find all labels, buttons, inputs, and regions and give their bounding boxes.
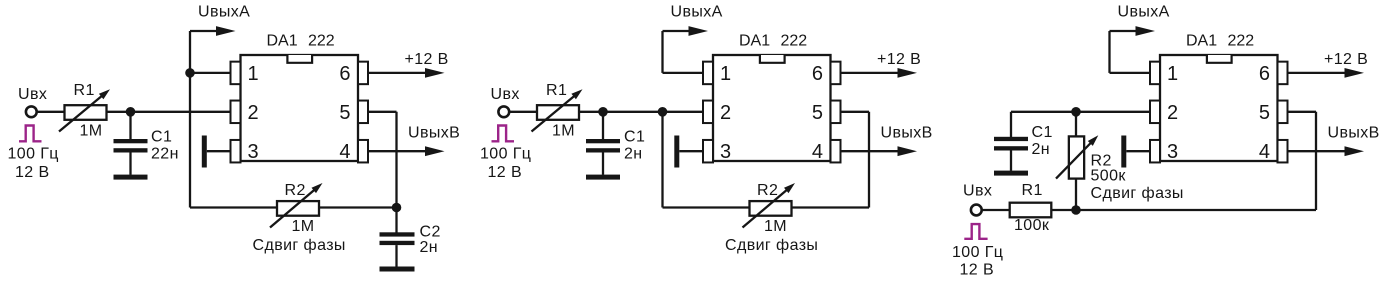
- svg-text:Сдвиг фазы: Сдвиг фазы: [1091, 185, 1184, 202]
- resistor R2 arrow (circuit 1): [270, 189, 315, 227]
- capacitor C1 lead (circuit 3): [1010, 112, 1012, 138]
- resistor R2 body (circuit 2): [750, 201, 792, 216]
- input terminal circle (circuit 3): [971, 205, 982, 216]
- svg-text:6: 6: [1259, 63, 1270, 85]
- svg-text:2: 2: [720, 102, 731, 124]
- pin 4 box (circuit 2): [831, 140, 841, 163]
- svg-text:C2: C2: [420, 224, 441, 241]
- svg-text:R2: R2: [757, 182, 778, 199]
- svg-text:Uвх: Uвх: [18, 86, 47, 103]
- junction node R1/R2 (circuit 3): [1071, 205, 1081, 215]
- pulse source symbol (circuit 3): [964, 224, 987, 239]
- svg-text:12 В: 12 В: [960, 262, 995, 279]
- wire ground to pin 3 (circuit 1): [207, 150, 231, 152]
- wire UвыхA vertical to pin 1 (circuit 2): [661, 31, 663, 73]
- ground bar at pin 3 (circuit 2): [674, 136, 679, 168]
- svg-text:1: 1: [720, 63, 731, 85]
- pin 3 box (circuit 3): [1150, 140, 1160, 163]
- input terminal circle (circuit 2): [498, 106, 509, 117]
- svg-text:Сдвиг фазы: Сдвиг фазы: [725, 237, 818, 254]
- pin 2 box (circuit 1): [231, 101, 241, 124]
- svg-text:100 Гц: 100 Гц: [8, 146, 59, 163]
- svg-text:UвыхA: UвыхA: [671, 4, 723, 21]
- svg-text:222: 222: [308, 33, 335, 50]
- svg-text:1M: 1M: [764, 218, 787, 235]
- wire terminal to R1 (circuit 2): [509, 111, 537, 113]
- wire terminal to R1 (circuit 3): [982, 209, 1010, 211]
- output UвыхA arrow (circuit 3): [1110, 30, 1138, 32]
- pin 5 box (circuit 2): [831, 101, 841, 124]
- resistor R1 arrow (circuit 2): [532, 95, 576, 131]
- svg-text:DA1: DA1: [267, 33, 298, 50]
- output UвыхA arrow (circuit 2): [663, 30, 691, 32]
- svg-text:2н: 2н: [1032, 141, 1051, 158]
- svg-text:+12 В: +12 В: [1324, 51, 1368, 68]
- junction node R2/C2/pin5 (circuit 1): [392, 203, 402, 213]
- pin 1 box (circuit 1): [231, 62, 241, 85]
- resistor R2 arrow (circuit 3): [1056, 142, 1092, 179]
- capacitor C1 top plate (circuit 1): [114, 139, 148, 143]
- junction node R1/C1 (circuit 2): [598, 107, 608, 117]
- input terminal circle (circuit 1): [26, 106, 37, 117]
- +12 В supply arrow (circuit 2): [841, 72, 900, 74]
- wire UвыхA vertical to pin 1 (circuit 3): [1108, 31, 1110, 73]
- wire R1 to pin 5 line (circuit 3): [1051, 209, 1316, 211]
- capacitor C1 lead (circuit 2): [602, 112, 604, 140]
- svg-text:UвыхB: UвыхB: [881, 125, 933, 142]
- wire R2 to pin 5 vertical (circuit 2): [792, 206, 870, 208]
- pin 6 box (circuit 2): [831, 62, 841, 85]
- wire pin 5 to vertical (circuit 2): [841, 111, 870, 113]
- wire R1 to pin 2 (circuit 2): [579, 111, 703, 113]
- svg-text:4: 4: [339, 141, 350, 163]
- wire ground to pin 3 (circuit 3): [1126, 150, 1150, 152]
- svg-text:500к: 500к: [1091, 168, 1127, 185]
- svg-text:4: 4: [1259, 141, 1270, 163]
- wire node to pin 1 (circuit 1): [190, 72, 231, 74]
- ground bar of C1 (circuit 3): [994, 171, 1028, 176]
- svg-text:5: 5: [339, 102, 350, 124]
- output UвыхB arrow (circuit 2): [841, 150, 900, 152]
- svg-text:UвыхB: UвыхB: [1328, 125, 1380, 142]
- capacitor C1 ground lead (circuit 1): [129, 153, 131, 175]
- capacitor C1 ground lead (circuit 2): [602, 153, 604, 175]
- svg-text:22н: 22н: [151, 146, 179, 163]
- wire pin 5 vertical down (circuit 2): [868, 112, 870, 208]
- wire UвыхA vertical feedback line (circuit 1): [189, 31, 191, 208]
- pin 6 box (circuit 1): [358, 62, 368, 85]
- op-amp IC DA1 body (circuit 3): [1160, 55, 1278, 161]
- wire pin 5 vertical down (circuit 3): [1315, 112, 1317, 210]
- ground bar of C1 (circuit 2): [586, 175, 620, 180]
- op-amp IC DA1 body (circuit 1): [241, 55, 359, 161]
- pin 1 box (circuit 3): [1150, 62, 1160, 85]
- pin 3 box (circuit 1): [231, 140, 241, 163]
- svg-text:UвыхB: UвыхB: [408, 125, 460, 142]
- junction node R2 top (circuit 3): [1071, 107, 1081, 117]
- capacitor C1 ground lead (circuit 3): [1010, 151, 1012, 171]
- capacitor C1 bottom plate (circuit 3): [994, 146, 1028, 150]
- svg-text:5: 5: [812, 102, 823, 124]
- svg-text:R2: R2: [285, 182, 306, 199]
- wire pin 5 to vertical (circuit 1): [368, 111, 397, 113]
- wire pin 2 horizontal (circuit 3): [1011, 111, 1151, 113]
- ground bar of C2 (circuit 1): [380, 267, 415, 272]
- svg-text:R1: R1: [74, 82, 95, 99]
- pin 1 box (circuit 2): [703, 62, 713, 85]
- output UвыхB arrow (circuit 1): [368, 150, 427, 152]
- svg-text:4: 4: [812, 141, 823, 163]
- +12 В supply arrow (circuit 3): [1288, 72, 1347, 74]
- svg-text:C1: C1: [151, 129, 172, 146]
- capacitor C2 ground lead (circuit 1): [395, 245, 397, 267]
- svg-text:100 Гц: 100 Гц: [952, 244, 1003, 261]
- wire terminal to R1 (circuit 1): [37, 111, 65, 113]
- capacitor C2 top plate (circuit 1): [380, 232, 415, 236]
- resistor R2 arrow (circuit 2): [743, 189, 788, 227]
- svg-text:3: 3: [1167, 141, 1178, 163]
- capacitor C1 top plate (circuit 2): [586, 139, 620, 143]
- svg-text:100 Гц: 100 Гц: [480, 146, 531, 163]
- wire R2 tap vertical down (circuit 2): [661, 112, 663, 208]
- resistor R1 body (circuit 3): [1010, 203, 1052, 218]
- svg-text:5: 5: [1259, 102, 1270, 124]
- svg-text:+12 В: +12 В: [405, 51, 449, 68]
- capacitor C2 lead (circuit 1): [395, 208, 397, 233]
- wire R2 to node (circuit 1): [319, 206, 397, 208]
- capacitor C1 top plate (circuit 3): [994, 137, 1028, 141]
- pin 5 box (circuit 1): [358, 101, 368, 124]
- wire ground to pin 3 (circuit 2): [679, 150, 703, 152]
- wire bottom feedback left (circuit 2): [663, 206, 750, 208]
- svg-text:Uвх: Uвх: [963, 183, 992, 200]
- svg-text:1M: 1M: [552, 123, 575, 140]
- pin 3 box (circuit 2): [703, 140, 713, 163]
- svg-text:3: 3: [720, 141, 731, 163]
- svg-text:1: 1: [248, 63, 259, 85]
- pin 6 box (circuit 3): [1278, 62, 1288, 85]
- pin 2 box (circuit 3): [1150, 101, 1160, 124]
- wire pin 5 to vertical (circuit 3): [1288, 111, 1317, 113]
- wire R2 bottom lead (circuit 3): [1075, 179, 1077, 210]
- svg-text:+12 В: +12 В: [877, 51, 921, 68]
- svg-text:1M: 1M: [80, 123, 103, 140]
- svg-text:DA1: DA1: [1186, 33, 1217, 50]
- svg-text:R1: R1: [546, 82, 567, 99]
- resistor R1 body (circuit 2): [537, 105, 579, 120]
- pin 5 box (circuit 3): [1278, 101, 1288, 124]
- svg-text:6: 6: [339, 63, 350, 85]
- svg-text:222: 222: [781, 33, 808, 50]
- IC DA1 top notch (circuit 1): [287, 55, 312, 63]
- ground bar at pin 3 (circuit 1): [202, 136, 207, 168]
- pin 4 box (circuit 3): [1278, 140, 1288, 163]
- svg-text:1: 1: [1167, 63, 1178, 85]
- output UвыхA arrow (circuit 1): [190, 30, 218, 32]
- +12 В supply arrow (circuit 1): [368, 72, 427, 74]
- junction node R1/C1 (circuit 1): [126, 107, 136, 117]
- svg-text:2: 2: [248, 102, 259, 124]
- op-amp IC DA1 body (circuit 2): [713, 55, 831, 161]
- svg-text:UвыхA: UвыхA: [1118, 4, 1170, 21]
- svg-text:12 В: 12 В: [488, 164, 523, 181]
- resistor R2 body (circuit 1): [277, 201, 319, 216]
- capacitor C2 bottom plate (circuit 1): [380, 241, 415, 245]
- svg-text:2н: 2н: [420, 239, 439, 256]
- output UвыхB arrow (circuit 3): [1288, 150, 1347, 152]
- resistor R1 body (circuit 1): [65, 105, 107, 120]
- resistor R1 arrow (circuit 1): [59, 95, 103, 131]
- wire R2 top lead (circuit 3): [1075, 112, 1077, 137]
- pin 2 box (circuit 2): [703, 101, 713, 124]
- pulse source symbol (circuit 1): [19, 126, 42, 142]
- svg-text:6: 6: [812, 63, 823, 85]
- IC DA1 top notch (circuit 2): [760, 55, 785, 63]
- potentiometer R2 body (circuit 3): [1069, 136, 1084, 178]
- IC DA1 top notch (circuit 3): [1207, 55, 1232, 63]
- svg-text:2н: 2н: [624, 146, 643, 163]
- svg-text:C1: C1: [624, 129, 645, 146]
- svg-text:UвыхA: UвыхA: [198, 4, 250, 21]
- junction node R2 tap (circuit 2): [658, 107, 668, 117]
- pulse source symbol (circuit 2): [492, 126, 515, 142]
- pin 4 box (circuit 1): [358, 140, 368, 163]
- capacitor C1 bottom plate (circuit 2): [586, 148, 620, 152]
- svg-text:Uвх: Uвх: [491, 86, 520, 103]
- wire pin 5 vertical down (circuit 1): [395, 112, 397, 208]
- ground bar of C1 (circuit 1): [114, 175, 148, 180]
- svg-text:222: 222: [1228, 33, 1255, 50]
- junction node pin 1 (circuit 1): [185, 68, 195, 78]
- svg-text:1M: 1M: [292, 218, 315, 235]
- ground bar at pin 3 (circuit 3): [1121, 136, 1126, 168]
- capacitor C1 lead (circuit 1): [129, 112, 131, 140]
- svg-text:Сдвиг фазы: Сдвиг фазы: [253, 237, 346, 254]
- wire bottom feedback left (circuit 1): [190, 206, 277, 208]
- svg-text:100к: 100к: [1014, 217, 1050, 234]
- svg-text:DA1: DA1: [739, 33, 770, 50]
- svg-text:2: 2: [1167, 102, 1178, 124]
- svg-text:R1: R1: [1022, 182, 1043, 199]
- svg-text:3: 3: [248, 141, 259, 163]
- svg-text:12 В: 12 В: [15, 164, 50, 181]
- svg-text:C1: C1: [1032, 124, 1053, 141]
- capacitor C1 bottom plate (circuit 1): [114, 148, 148, 152]
- wire R1 to pin 2 (circuit 1): [107, 111, 231, 113]
